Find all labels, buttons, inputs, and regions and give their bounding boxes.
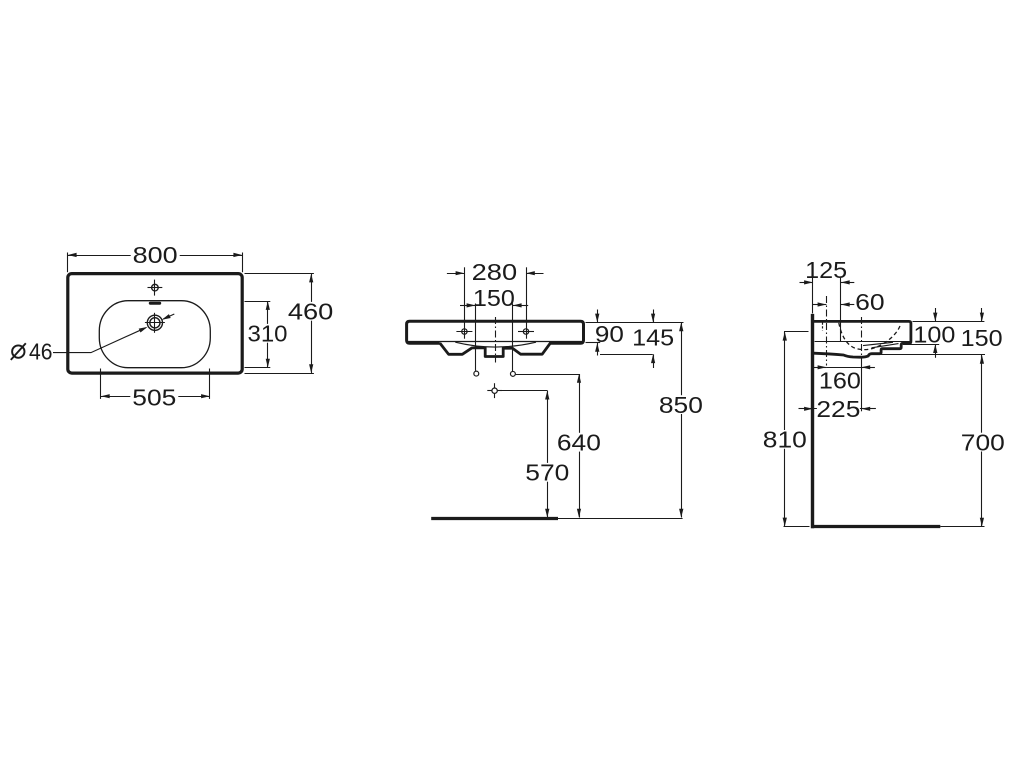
dimension 280 <box>447 273 465 275</box>
svg-text:90: 90 <box>595 321 624 347</box>
dimension 460 right <box>245 273 314 275</box>
fixing hole extension line <box>516 374 580 376</box>
front view: underside extension line <box>600 354 653 356</box>
side view: far lip thin lines <box>863 342 893 345</box>
dimension 145 <box>653 310 655 323</box>
svg-text:640: 640 <box>557 430 601 456</box>
dimension 570 <box>547 391 549 518</box>
side view: basin silhouette <box>814 321 911 357</box>
front view: floor line <box>431 517 558 520</box>
svg-text:460: 460 <box>288 299 334 325</box>
left view: faucet hole symbol <box>148 287 163 289</box>
front view: left mounting hole cross <box>456 331 472 333</box>
dimension 125 <box>800 282 813 284</box>
label o46 with leader to drain <box>12 345 24 357</box>
side view: hidden fixing hole dashes <box>822 323 824 331</box>
svg-text:570: 570 <box>525 460 569 486</box>
dimension 700 <box>981 355 983 527</box>
front view: left fixing hole <box>474 371 479 376</box>
front view: bar bottom inner edge <box>408 341 583 343</box>
side view: hidden bowl dashed curve <box>839 323 901 350</box>
dimension 640 <box>579 374 581 518</box>
left view: drain hole symbol <box>145 322 165 324</box>
dimension 505 bottom <box>100 369 102 399</box>
dimension 280 extension lines <box>464 267 466 338</box>
side view: floor line <box>811 525 940 528</box>
svg-text:810: 810 <box>763 427 807 453</box>
svg-text:150: 150 <box>473 285 515 311</box>
svg-text:150: 150 <box>961 325 1003 351</box>
dimension 850 <box>681 322 683 517</box>
dimension 160 <box>826 367 861 369</box>
left view: inner bowl outline <box>99 301 210 368</box>
side view: deck top right extension line <box>913 321 985 323</box>
svg-text:60: 60 <box>855 289 885 315</box>
side view: drain axis center line <box>861 317 863 360</box>
dimension 150 extension lines <box>475 304 477 371</box>
dimension 810 extension line <box>784 331 809 333</box>
front view: bar bottom extension line <box>586 342 601 344</box>
dimension 310 inner <box>245 301 271 303</box>
drain extension line <box>498 390 548 392</box>
svg-text:160: 160 <box>819 367 861 393</box>
svg-text:505: 505 <box>132 384 176 410</box>
front view: drain hole target <box>487 390 502 392</box>
front view: right mounting hole cross <box>518 331 534 333</box>
svg-text:310: 310 <box>248 321 288 347</box>
dimension 800 top <box>67 253 69 273</box>
side view: basin bottom right extension line <box>880 354 985 356</box>
svg-text:46: 46 <box>29 339 53 365</box>
svg-text:125: 125 <box>805 257 847 283</box>
dimension 90 <box>597 310 599 323</box>
dimension 225 <box>813 408 862 410</box>
side view: wall line <box>811 314 814 528</box>
side view: faucet axis center line <box>826 296 828 366</box>
side view: deck bottom thin line <box>815 341 910 343</box>
front view: right fixing hole <box>510 371 515 376</box>
left view: basin outer rim rectangle <box>68 274 242 374</box>
front view: center line <box>495 317 497 363</box>
svg-text:145: 145 <box>632 324 674 350</box>
dimension 150 side <box>981 308 983 321</box>
dimension 810 <box>784 332 786 527</box>
dimension 100 <box>935 308 937 321</box>
svg-text:700: 700 <box>961 429 1005 455</box>
svg-text:280: 280 <box>472 259 518 285</box>
front view: basin body bar <box>407 321 584 343</box>
front view: underside profile <box>440 343 551 357</box>
front view: top edge extension line <box>586 322 684 324</box>
front view: bowl bottom arc <box>455 342 536 347</box>
svg-text:800: 800 <box>133 242 178 268</box>
svg-text:100: 100 <box>913 322 955 348</box>
left view: overflow slot <box>149 302 161 305</box>
dimension 60 <box>813 304 826 306</box>
dimension 125 extension lines <box>812 278 814 314</box>
svg-text:225: 225 <box>816 396 860 422</box>
svg-text:850: 850 <box>659 392 703 418</box>
side view: deck bottom right extension line <box>903 344 939 346</box>
dimension 150 <box>460 305 475 307</box>
